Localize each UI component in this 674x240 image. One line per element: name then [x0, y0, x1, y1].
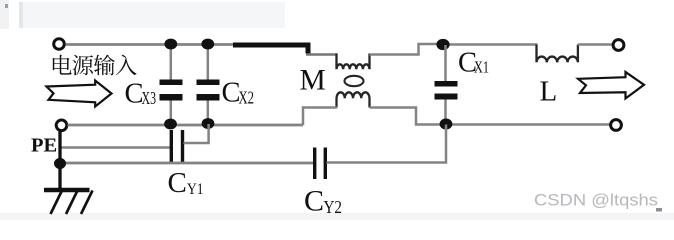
- wire: upper winding to right jog: [370, 44, 439, 55]
- capacitor CX2 top leg: [207, 45, 210, 80]
- svg-text:L: L: [540, 76, 558, 108]
- common-mode choke M upper winding: [337, 54, 370, 70]
- node: CX1 top junction dot: [436, 39, 449, 50]
- wire: thick black top segment into choke M: [233, 45, 308, 54]
- ground symbol: [44, 190, 93, 214]
- svg-text:C: C: [304, 185, 324, 218]
- wire: PE to CY1 left plate: [61, 146, 170, 149]
- node: CX2 top junction dot: [201, 39, 214, 50]
- svg-text:X1: X1: [474, 58, 489, 77]
- capacitor CX2 bottom leg: [207, 101, 210, 125]
- wire: bottom rail jog up into lower winding: [303, 108, 337, 126]
- input terminal J1 top (phase): [54, 39, 65, 50]
- capacitor CX3 plates: [160, 80, 183, 86]
- capacitor CX2 plates: [197, 80, 220, 86]
- wire: bottom rail from input to jog up: [68, 124, 304, 127]
- common-mode choke M lower winding: [337, 92, 370, 107]
- capacitor CX1 top leg: [444, 45, 447, 82]
- svg-text:Y2: Y2: [324, 197, 343, 217]
- node: CX3 top junction dot: [164, 39, 177, 50]
- label 电源输入 (power input): [53, 55, 137, 76]
- node: PE junction dot: [54, 158, 66, 169]
- wire: lower winding to jog down: [370, 108, 441, 125]
- bottom screenshot artifact bar: [0, 213, 674, 220]
- svg-text:Y1: Y1: [187, 181, 204, 198]
- input block arrow: [47, 81, 112, 107]
- svg-text:M: M: [300, 65, 326, 97]
- output terminal top: [613, 40, 624, 51]
- inductor L: [537, 45, 578, 63]
- svg-text:CSDN @ltqshs: CSDN @ltqshs: [534, 192, 658, 210]
- wire: inductor to output terminal: [578, 43, 613, 46]
- node: CX1 bottom junction dot: [440, 119, 453, 130]
- node: CX3 bottom junction dot: [164, 119, 177, 130]
- input terminal bottom (neutral): [56, 120, 67, 131]
- capacitor CX3 top leg: [170, 45, 173, 80]
- wire: CY2 right plate to riser under CX1: [327, 125, 447, 163]
- wire: grey segment to upper winding of M: [306, 53, 338, 55]
- svg-text:X2: X2: [239, 88, 255, 108]
- wire: PE vertical conductor: [58, 130, 61, 190]
- capacitor CY2 plates (vertical): [313, 148, 316, 180]
- wire: CY1 right plate up to bottom rail: [184, 124, 209, 143]
- svg-text:C: C: [168, 167, 187, 199]
- svg-text:X3: X3: [142, 88, 157, 108]
- wire: top rail node CX1 to inductor L: [443, 43, 538, 46]
- capacitor CX1 bottom leg: [444, 100, 447, 125]
- top screenshot artifact bar: [0, 0, 9, 29]
- wire: top rail from input terminal to node of CX3/CX2: [66, 43, 235, 46]
- common-mode choke M core (ellipse): [345, 76, 364, 86]
- capacitor CX1 plates: [435, 81, 458, 87]
- output terminal bottom: [611, 120, 622, 131]
- svg-text:PE: PE: [31, 135, 57, 157]
- capacitor CY1 plates (vertical): [170, 130, 173, 162]
- wire: PE rail to CY2 left plate: [60, 162, 314, 165]
- output block arrow: [578, 72, 644, 99]
- capacitor CX3 bottom leg: [170, 101, 173, 125]
- wire: bottom rail to output terminal: [446, 123, 611, 126]
- node: CX2 bottom junction dot: [202, 118, 215, 129]
